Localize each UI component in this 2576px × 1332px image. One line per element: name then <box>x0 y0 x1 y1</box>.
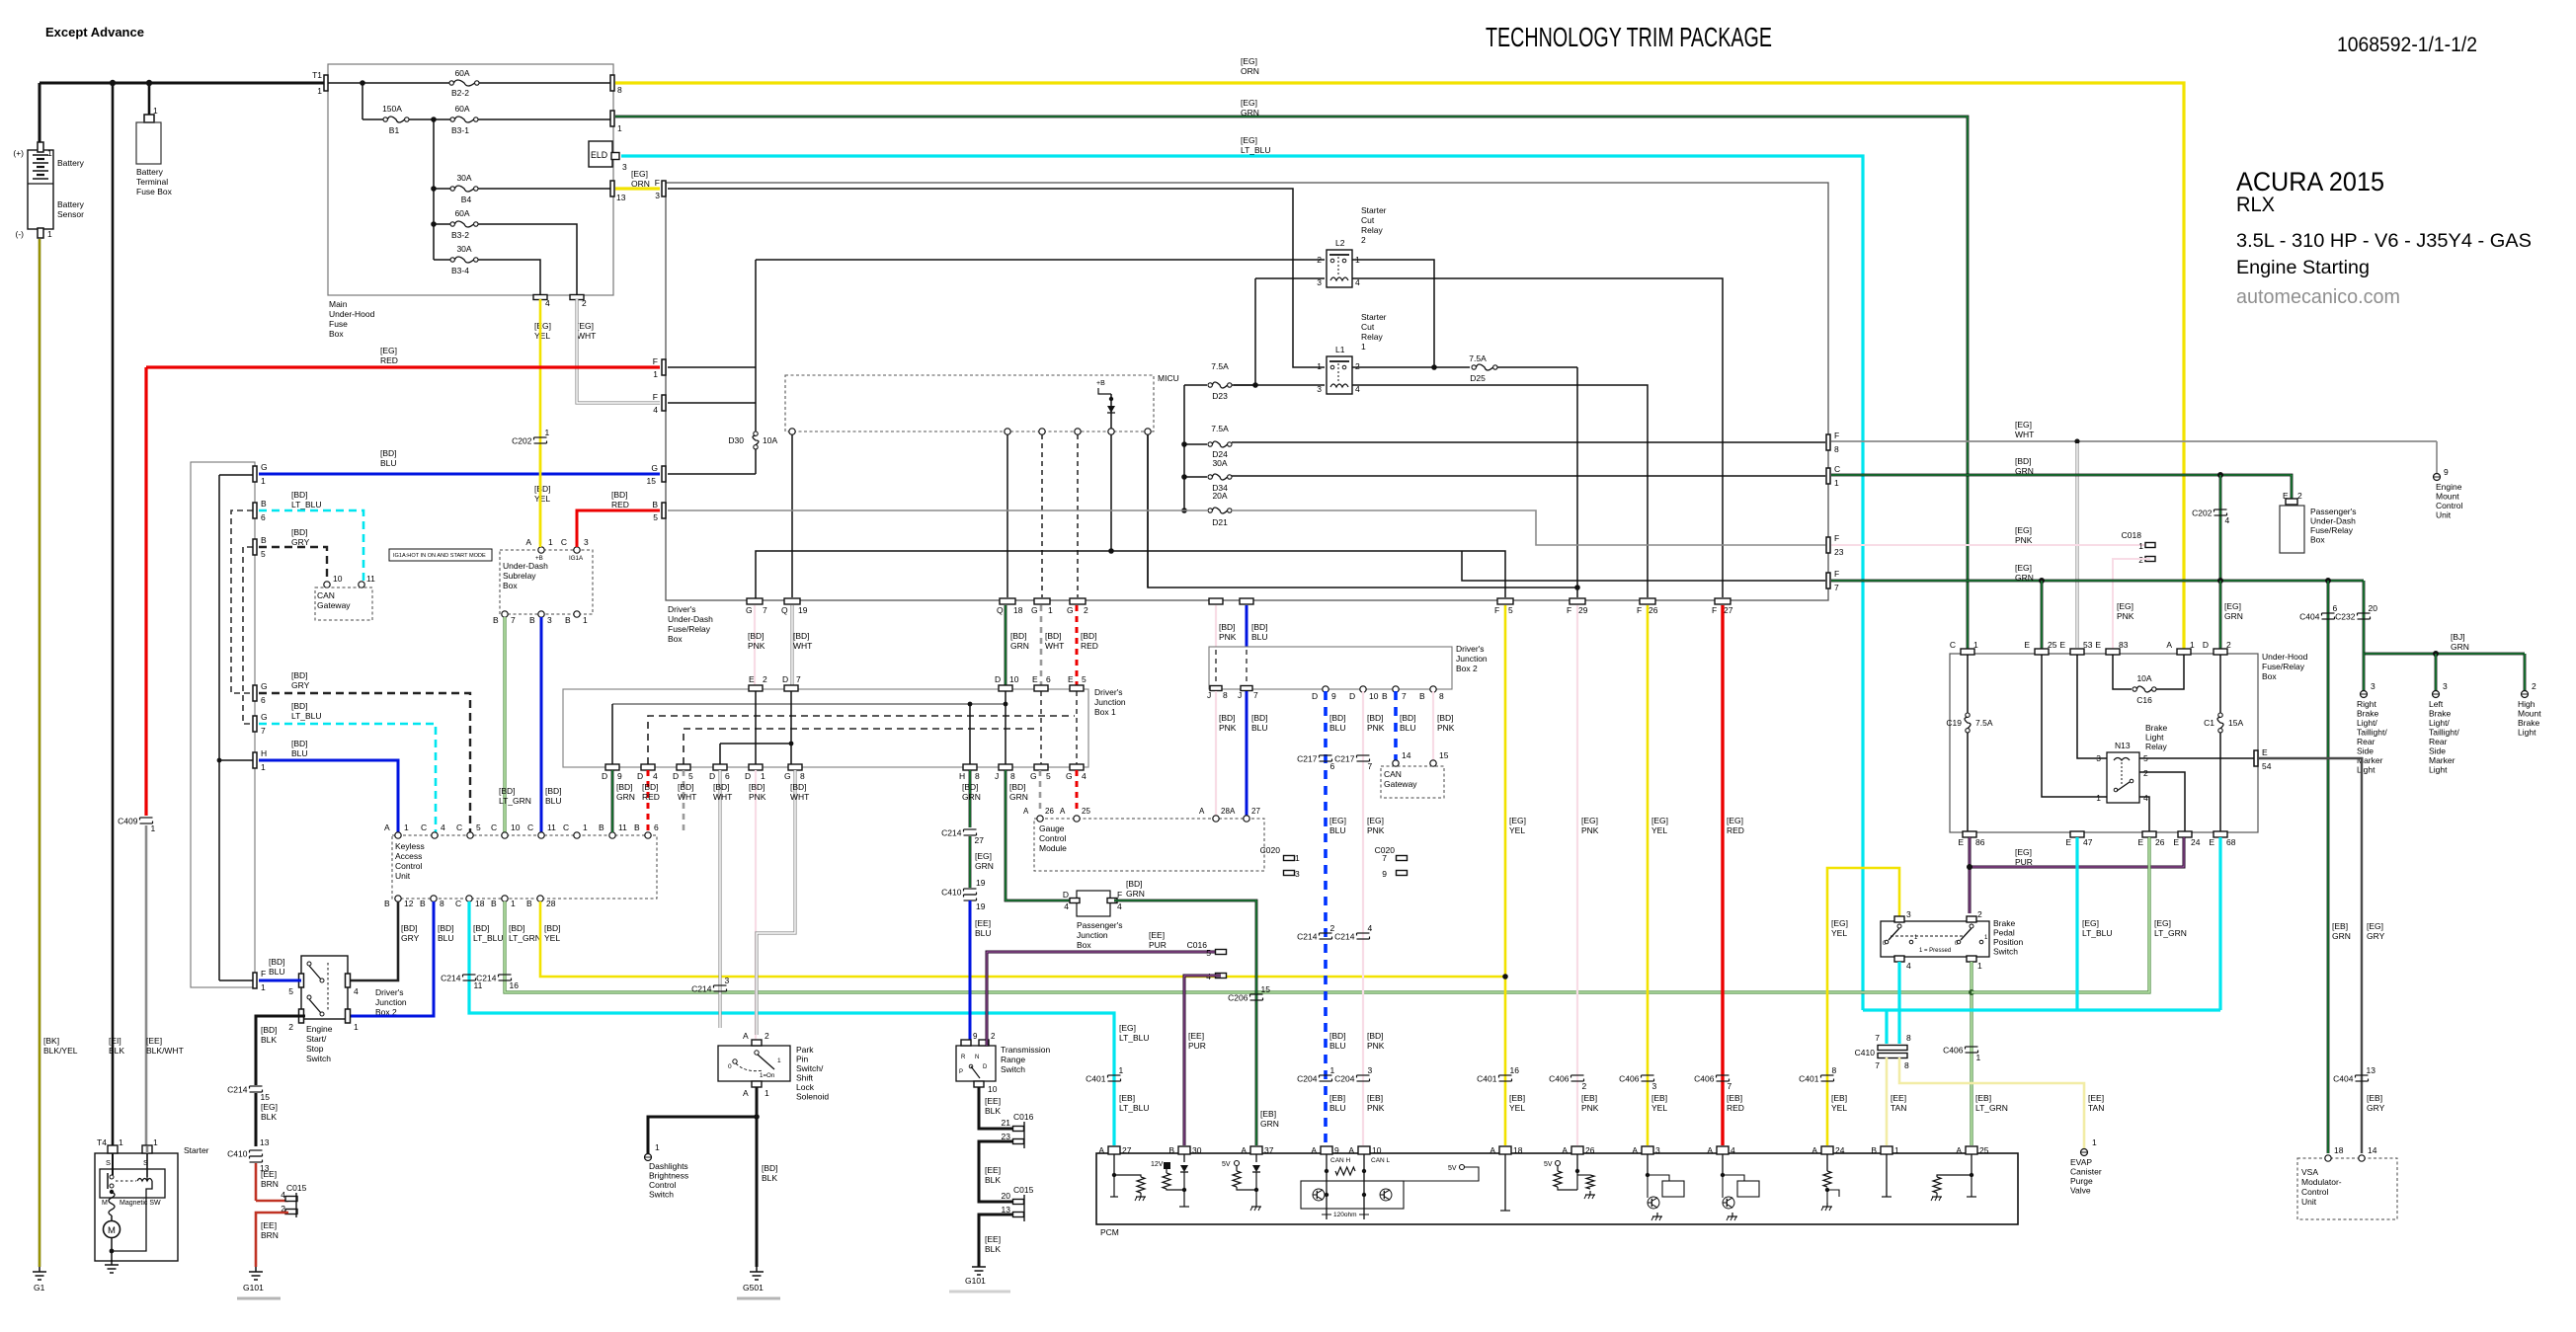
svg-text:L1: L1 <box>1335 345 1345 354</box>
relay L2 starter cut relay 2 <box>1327 250 1352 287</box>
connector C406-1 <box>1966 1046 1978 1048</box>
wire F7 internal <box>1462 551 1825 581</box>
svg-text:WHT: WHT <box>713 792 732 802</box>
wire BD RED B5 to IG1A <box>577 510 660 547</box>
transmission range switch box <box>956 1046 996 1081</box>
svg-text:BLU: BLU <box>1400 723 1416 733</box>
svg-text:10: 10 <box>1369 691 1379 701</box>
svg-text:BLK: BLK <box>762 1173 777 1183</box>
svg-text:Except Advance: Except Advance <box>45 25 144 39</box>
svg-text:+B: +B <box>535 555 543 562</box>
wire MICU to Q19 <box>791 434 793 597</box>
svg-text:1: 1 <box>1976 1053 1981 1062</box>
connector J8 bottom <box>1210 686 1222 691</box>
svg-text:5: 5 <box>688 771 693 781</box>
svg-text:18: 18 <box>475 899 485 908</box>
svg-text:Relay: Relay <box>2145 742 2167 751</box>
svg-text:[EG]: [EG] <box>1651 816 1668 825</box>
svg-text:25: 25 <box>2048 640 2057 650</box>
svg-text:Cut: Cut <box>1361 322 1375 332</box>
wire left brake light drop <box>2435 654 2438 691</box>
svg-text:Driver's: Driver's <box>1456 644 1485 654</box>
svg-text:BLK: BLK <box>985 1244 1001 1254</box>
svg-text:Pedal: Pedal <box>1993 928 2015 938</box>
svg-text:C401: C401 <box>1477 1074 1497 1084</box>
svg-text:1: 1 <box>47 148 52 158</box>
svg-text:8: 8 <box>1010 771 1015 781</box>
svg-text:7: 7 <box>763 605 767 615</box>
svg-text:Under-Dash: Under-Dash <box>503 561 548 571</box>
wire MICU to F29 col <box>1147 434 1149 588</box>
svg-text:N13: N13 <box>2115 741 2131 750</box>
svg-text:Q: Q <box>781 605 788 615</box>
svg-text:D: D <box>1312 691 1318 701</box>
svg-text:[EB]: [EB] <box>1119 1093 1135 1103</box>
connector J7 bottom <box>1241 686 1252 691</box>
svg-text:F: F <box>653 392 658 402</box>
under-hood top connectors <box>1961 649 1974 655</box>
connector C204-3 <box>1357 1074 1370 1076</box>
svg-text:3: 3 <box>2443 681 2448 691</box>
svg-text:C020: C020 <box>1260 845 1281 855</box>
wire E25 to N13 pin1 <box>2042 655 2107 797</box>
connector J7 stub <box>1240 598 1253 604</box>
svg-text:10: 10 <box>333 574 343 584</box>
svg-text:Unit: Unit <box>2436 510 2452 520</box>
svg-text:1: 1 <box>761 771 765 781</box>
svg-text:N: N <box>975 1055 979 1060</box>
svg-text:27: 27 <box>1724 605 1733 615</box>
svg-text:BLU: BLU <box>291 748 308 758</box>
svg-text:1: 1 <box>511 899 516 908</box>
svg-text:25: 25 <box>1979 1145 1989 1155</box>
junction box1 internal dashed links <box>648 716 1075 764</box>
svg-text:(-): (-) <box>16 229 25 239</box>
svg-text:10A: 10A <box>763 435 777 445</box>
svg-text:[BD]: [BD] <box>544 923 561 933</box>
svg-text:8: 8 <box>1904 1060 1909 1070</box>
svg-text:PNK: PNK <box>1219 723 1237 733</box>
connector E54 <box>2254 750 2258 766</box>
svg-text:Brake: Brake <box>2357 709 2378 719</box>
svg-text:1: 1 <box>354 1022 359 1032</box>
svg-text:9: 9 <box>973 1032 978 1041</box>
ground G501 <box>756 1267 758 1272</box>
svg-text:4: 4 <box>545 298 550 308</box>
wire BD WHT G8 to park pin A2 <box>757 770 795 1035</box>
wire BD PNK J8 to gauge A28 <box>1215 691 1217 816</box>
svg-text:A: A <box>1311 1145 1317 1155</box>
wire EE BLK 2 <box>979 1141 1013 1202</box>
svg-text:2: 2 <box>1084 605 1088 615</box>
svg-text:D30: D30 <box>728 435 744 445</box>
svg-text:9: 9 <box>1331 691 1336 701</box>
svg-text:2: 2 <box>1977 909 1982 919</box>
svg-text:26: 26 <box>1585 1145 1595 1155</box>
svg-text:WHT: WHT <box>577 331 596 341</box>
svg-text:ORN: ORN <box>631 179 650 189</box>
svg-text:3: 3 <box>2371 681 2375 691</box>
svg-text:VSA: VSA <box>2301 1167 2318 1177</box>
svg-text:[EG]: [EG] <box>1727 816 1743 825</box>
svg-text:D: D <box>709 771 715 781</box>
connector F5 <box>1497 598 1513 604</box>
svg-text:7.5A: 7.5A <box>1211 424 1229 433</box>
connector F7 <box>1826 573 1830 588</box>
wire LT_GRN brake pin1 to A25 <box>1970 962 1972 1145</box>
svg-text:G: G <box>1066 771 1073 781</box>
svg-text:[EG]: [EG] <box>2367 921 2383 931</box>
svg-text:Subrelay: Subrelay <box>503 571 536 581</box>
svg-text:8: 8 <box>975 771 980 781</box>
svg-text:BLK: BLK <box>261 1035 277 1045</box>
svg-text:Fuse/Relay: Fuse/Relay <box>2262 662 2305 671</box>
svg-text:High: High <box>2518 699 2536 709</box>
svg-text:Control: Control <box>2301 1187 2329 1197</box>
svg-text:GRN: GRN <box>1010 641 1029 651</box>
wire N13 pin5 to E54 <box>2139 757 2254 759</box>
svg-text:1: 1 <box>261 982 266 992</box>
svg-text:9: 9 <box>617 771 622 781</box>
wire battery positive drop <box>39 83 41 150</box>
svg-text:ACURA 2015: ACURA 2015 <box>2236 167 2384 196</box>
svg-text:4: 4 <box>281 1190 285 1200</box>
wire BD GRN C1 to passengers box <box>1831 475 2292 499</box>
svg-text:30A: 30A <box>456 244 471 254</box>
wire EG GRN drop E25 <box>2041 581 2044 650</box>
under-hood bottom connectors <box>1963 831 1976 837</box>
svg-text:T4: T4 <box>97 1137 107 1147</box>
svg-text:E: E <box>749 674 755 684</box>
connector T1 <box>324 75 328 91</box>
wire EG LT_BLU E47 riser <box>2075 837 2078 1010</box>
svg-text:D: D <box>983 1064 988 1070</box>
wire internal riser x765 <box>755 260 757 431</box>
svg-text:20: 20 <box>1002 1191 1011 1201</box>
wire BD PNK G7 to E2 <box>754 605 756 685</box>
svg-text:5V: 5V <box>1544 1161 1553 1168</box>
connector C214-27 <box>964 828 977 830</box>
svg-text:3: 3 <box>547 615 552 625</box>
svg-text:[BD]: [BD] <box>380 448 397 458</box>
TRS pins <box>961 1040 971 1046</box>
svg-text:A: A <box>1489 1145 1495 1155</box>
svg-text:GRN: GRN <box>962 792 981 802</box>
svg-text:6: 6 <box>1046 674 1051 684</box>
svg-text:WHT: WHT <box>793 641 812 651</box>
svg-text:J: J <box>1207 690 1211 700</box>
svg-text:C406: C406 <box>1619 1074 1640 1084</box>
svg-text:C202: C202 <box>512 436 532 446</box>
svg-text:Starter: Starter <box>1361 205 1387 215</box>
svg-text:25: 25 <box>1082 807 1090 816</box>
svg-text:[EG]: [EG] <box>1367 816 1384 825</box>
relay N13 brake light relay <box>2107 752 2139 803</box>
svg-text:Fuse/Relay: Fuse/Relay <box>2310 525 2354 535</box>
svg-text:20A: 20A <box>1212 491 1227 501</box>
svg-text:1: 1 <box>1834 478 1839 488</box>
connector C016-5-4 <box>1216 950 1227 955</box>
svg-text:BLU: BLU <box>1251 632 1268 642</box>
svg-text:Sensor: Sensor <box>57 209 84 219</box>
wire BD BLU J7 stub <box>1246 605 1248 647</box>
svg-text:M: M <box>102 1200 108 1207</box>
wire battery bus <box>40 82 324 85</box>
wire BD GRY dashed G6 to C5 <box>259 693 470 832</box>
connector 8 <box>610 75 614 91</box>
svg-text:11: 11 <box>618 823 627 832</box>
svg-text:Range: Range <box>1001 1055 1025 1064</box>
svg-text:D: D <box>673 771 679 781</box>
connector C204-1 <box>1320 1074 1332 1076</box>
svg-text:Main: Main <box>329 299 348 309</box>
connector D7 top <box>784 685 798 691</box>
svg-text:[EE]: [EE] <box>261 1169 277 1179</box>
svg-text:[EB]: [EB] <box>2367 1093 2382 1103</box>
svg-text:[BD]: [BD] <box>1367 1031 1384 1041</box>
svg-text:Valve: Valve <box>2070 1186 2091 1196</box>
svg-text:Engine Starting: Engine Starting <box>2236 258 2370 278</box>
svg-text:C232: C232 <box>2335 612 2356 622</box>
wire EE BLK TRS <box>979 1087 1013 1129</box>
wire EG BLK <box>255 1093 258 1146</box>
svg-text:Junction: Junction <box>1077 930 1108 940</box>
svg-text:BRN: BRN <box>261 1179 279 1189</box>
svg-text:2: 2 <box>1355 361 1360 371</box>
svg-text:1: 1 <box>2138 541 2143 551</box>
wire BD WHT G5 to gauge A26 dashed <box>1039 770 1042 813</box>
svg-text:GRN: GRN <box>2015 466 2034 476</box>
svg-text:Under-Hood: Under-Hood <box>2262 652 2308 662</box>
wire high mount drop <box>2524 654 2527 691</box>
wire BD YEL C202 to +B <box>539 445 542 547</box>
PCM internal A27 <box>1113 1154 1115 1175</box>
MICU circles <box>789 429 795 434</box>
svg-text:1: 1 <box>1894 1145 1899 1155</box>
svg-text:1068592-1/1-1/2: 1068592-1/1-1/2 <box>2337 34 2477 56</box>
svg-text:E: E <box>2024 640 2030 650</box>
wire fuse row 30A B4 <box>434 188 450 190</box>
svg-text:3: 3 <box>1652 1081 1657 1091</box>
svg-text:A: A <box>1348 1145 1354 1155</box>
svg-text:[BD]: [BD] <box>545 786 562 796</box>
svg-text:C214: C214 <box>227 1085 248 1095</box>
svg-text:ORN: ORN <box>1241 66 1259 76</box>
svg-text:Keyless: Keyless <box>395 841 425 851</box>
svg-text:27: 27 <box>975 835 985 845</box>
svg-text:Control: Control <box>395 861 423 871</box>
svg-text:B: B <box>261 499 267 509</box>
svg-text:4: 4 <box>653 771 658 781</box>
wire EG PUR E24 E86 brake switch <box>1970 837 2184 867</box>
svg-text:A: A <box>1230 807 1236 816</box>
wire EE BLK 3 <box>979 1214 1013 1267</box>
svg-text:[EE]: [EE] <box>146 1036 162 1046</box>
svg-text:6: 6 <box>261 512 266 522</box>
svg-text:7: 7 <box>1875 1033 1880 1043</box>
svg-text:Driver's: Driver's <box>1094 687 1123 697</box>
svg-text:[BD]: [BD] <box>261 1025 278 1035</box>
svg-text:[BD]: [BD] <box>793 631 810 641</box>
connector C206-15 <box>1250 993 1263 995</box>
svg-text:[EE]: [EE] <box>2088 1093 2104 1103</box>
connector Q19 <box>784 598 800 604</box>
svg-text:Box: Box <box>668 634 683 644</box>
svg-text:BRN: BRN <box>261 1230 279 1240</box>
svg-text:2: 2 <box>2297 491 2302 501</box>
svg-text:1: 1 <box>404 823 409 832</box>
svg-text:47: 47 <box>2083 837 2093 847</box>
svg-text:LT_GRN: LT_GRN <box>509 933 541 943</box>
svg-text:LT_GRN: LT_GRN <box>1975 1103 2008 1113</box>
svg-text:PUR: PUR <box>2015 857 2033 867</box>
svg-text:Brake: Brake <box>2145 723 2167 733</box>
svg-text:1: 1 <box>2096 793 2101 803</box>
svg-text:Terminal: Terminal <box>136 177 168 187</box>
wire BD BLU H1 to A1 <box>259 760 398 832</box>
wire EG PNK C018 to E83 <box>2113 559 2150 650</box>
svg-text:2: 2 <box>765 1031 769 1041</box>
svg-text:PNK: PNK <box>1367 1103 1385 1113</box>
wire EE BRN 2 <box>256 1213 288 1267</box>
svg-text:Transmission: Transmission <box>1001 1045 1050 1055</box>
svg-text:7: 7 <box>511 615 516 625</box>
svg-text:GRY: GRY <box>2367 931 2385 941</box>
svg-text:PNK: PNK <box>749 792 766 802</box>
svg-text:TAN: TAN <box>1891 1103 1906 1113</box>
svg-text:19: 19 <box>976 878 986 888</box>
connector Q18 <box>1000 598 1015 604</box>
svg-text:G: G <box>1067 605 1074 615</box>
svg-text:LT_BLU: LT_BLU <box>473 933 504 943</box>
svg-text:PNK: PNK <box>1581 825 1599 835</box>
svg-text:13: 13 <box>2367 1065 2376 1075</box>
svg-text:G101: G101 <box>965 1276 986 1286</box>
svg-text:E: E <box>2137 837 2143 847</box>
svg-text:5: 5 <box>1046 771 1051 781</box>
connector G7 box2 <box>253 716 257 732</box>
svg-text:Q: Q <box>997 605 1004 615</box>
ground G101 trs <box>978 1262 980 1267</box>
wire BD RED G4 to gauge A25 dashed <box>1076 770 1079 813</box>
wire fuse row 30A B3-4 <box>434 259 450 261</box>
IG1A legend box <box>389 549 492 561</box>
svg-text:13: 13 <box>260 1137 270 1147</box>
svg-text:G: G <box>261 681 268 691</box>
wire BD PNK B8 to CAN15 <box>1432 691 1434 760</box>
svg-text:C19: C19 <box>1946 718 1962 728</box>
svg-text:[EE]: [EE] <box>985 1234 1001 1244</box>
svg-text:G: G <box>261 462 268 472</box>
connector C214-4 <box>1357 932 1370 934</box>
svg-text:5: 5 <box>653 512 658 522</box>
svg-text:PNK: PNK <box>2015 535 2033 545</box>
svg-text:[BD]: [BD] <box>269 957 285 967</box>
svg-text:1: 1 <box>119 1137 123 1147</box>
svg-text:GRY: GRY <box>291 537 310 547</box>
wire MICU diode drop <box>1110 434 1112 551</box>
svg-text:D: D <box>637 771 643 781</box>
svg-text:H: H <box>261 748 267 758</box>
svg-text:[BD]: [BD] <box>1010 631 1027 641</box>
wire BD BLK pin2 down <box>256 1016 305 1085</box>
svg-text:Control: Control <box>1039 833 1067 843</box>
svg-text:LT_BLU: LT_BLU <box>2082 928 2113 938</box>
svg-text:T1: T1 <box>312 70 322 80</box>
svg-text:12V: 12V <box>1151 1161 1164 1168</box>
wire EE TAN C410-8 to EVAP <box>1899 1058 2084 1148</box>
connector C232-20 <box>2358 612 2371 614</box>
PCM internal A4 <box>1722 1154 1724 1175</box>
svg-text:86: 86 <box>1975 837 1985 847</box>
svg-text:G101: G101 <box>243 1283 264 1293</box>
wire EE BLU to TRS pin9 <box>969 901 972 1040</box>
CAN gateway 1 <box>324 582 330 588</box>
svg-text:C409: C409 <box>118 817 138 826</box>
svg-text:7: 7 <box>1728 1081 1732 1091</box>
wire N13 pin4 to E26 <box>2139 797 2149 831</box>
svg-text:Box: Box <box>2262 671 2277 681</box>
svg-text:D: D <box>745 771 751 781</box>
svg-text:P: P <box>959 1069 963 1075</box>
svg-text:YEL: YEL <box>1831 1103 1847 1113</box>
wire EG ORN short to F3 <box>615 187 660 190</box>
svg-text:9: 9 <box>2444 467 2449 477</box>
wire EG RED horizontal <box>146 365 660 368</box>
svg-text:3: 3 <box>1368 1065 1373 1075</box>
svg-text:A: A <box>1241 1145 1247 1155</box>
connector C020-1-3 <box>1284 856 1295 861</box>
svg-text:A: A <box>525 537 531 547</box>
wire BD PNK J8 stub <box>1215 605 1217 647</box>
svg-text:10: 10 <box>511 823 521 832</box>
svg-text:GRN: GRN <box>2332 931 2351 941</box>
svg-text:C214: C214 <box>691 984 712 994</box>
svg-text:24: 24 <box>1835 1145 1845 1155</box>
svg-text:[BD]: [BD] <box>1219 713 1236 723</box>
svg-text:Switch: Switch <box>306 1054 331 1063</box>
svg-text:GRY: GRY <box>2367 1103 2385 1113</box>
connector B6 box2 <box>253 503 257 518</box>
svg-text:C: C <box>561 537 567 547</box>
svg-text:13: 13 <box>616 193 626 202</box>
svg-text:[EG]: [EG] <box>631 169 648 179</box>
svg-text:YEL: YEL <box>1651 1103 1667 1113</box>
connector 2 bottom <box>570 295 584 300</box>
svg-text:60A: 60A <box>454 68 469 78</box>
wire BD GRN D9 to B11 <box>611 770 614 832</box>
svg-text:[BD]: [BD] <box>1400 713 1416 723</box>
svg-text:[EG]: [EG] <box>1329 816 1346 825</box>
svg-text:1: 1 <box>1317 361 1322 371</box>
park pin connector A1 <box>752 1081 762 1087</box>
svg-text:D: D <box>1063 890 1069 900</box>
svg-text:7: 7 <box>1382 853 1387 863</box>
wire BD BLU to G15 <box>259 473 660 476</box>
svg-text:Gateway: Gateway <box>317 600 351 610</box>
svg-text:D: D <box>1349 691 1355 701</box>
junction box2 internal dashes <box>1215 650 1217 683</box>
svg-text:B: B <box>634 823 640 832</box>
svg-text:B3-2: B3-2 <box>451 230 469 240</box>
svg-text:Lock: Lock <box>796 1082 815 1092</box>
svg-text:[BD]: [BD] <box>499 786 516 796</box>
wire EB GRN C404-6 to VSA 18 <box>2327 581 2330 1153</box>
svg-text:WHT: WHT <box>2015 430 2034 439</box>
wire B5 gray to D21 <box>668 509 1207 511</box>
svg-text:[EG]: [EG] <box>2224 601 2241 611</box>
svg-text:Switch: Switch <box>1993 947 2018 957</box>
